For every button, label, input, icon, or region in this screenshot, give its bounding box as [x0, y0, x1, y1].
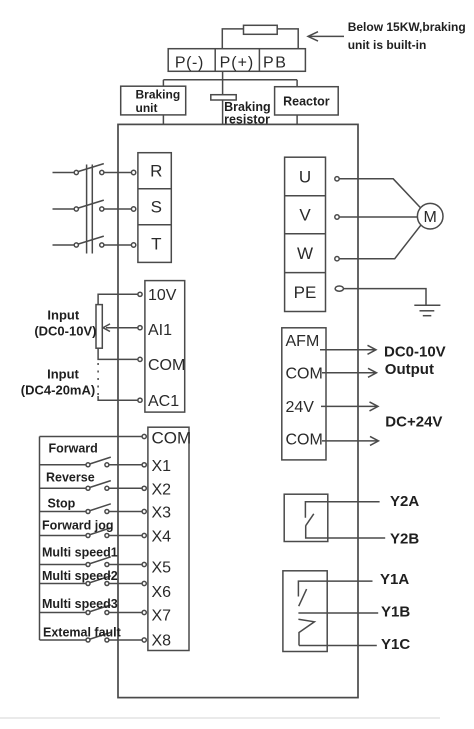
dotted wire to AC1 — [97, 363, 99, 396]
wire: X1 row with switch — [40, 464, 87, 466]
switch blade T — [78, 236, 104, 244]
terminal circles COM X1-X8 — [142, 434, 146, 642]
svg-text:COM: COM — [286, 431, 323, 448]
wire: S phase input — [53, 208, 75, 210]
svg-text:(DC0-10V): (DC0-10V) — [34, 324, 96, 339]
terminal circle W — [335, 257, 339, 261]
svg-text:Input: Input — [47, 367, 79, 382]
relay Y2 contact — [305, 502, 379, 518]
terminal circle 10V — [138, 292, 142, 296]
svg-text:W: W — [297, 244, 313, 263]
svg-text:24V: 24V — [286, 399, 315, 416]
wire: reactor to main block — [296, 115, 298, 124]
braking unit box — [121, 86, 186, 115]
terminal circle AI1 — [138, 326, 142, 330]
svg-text:DC0-10V: DC0-10V — [384, 343, 446, 360]
resistor: braking resistor symbol — [211, 95, 236, 100]
ground symbol — [414, 304, 440, 306]
switch circles X1-X8 — [86, 463, 109, 642]
switch blade S — [78, 200, 104, 208]
svg-text:Stop: Stop — [48, 496, 76, 510]
svg-text:X8: X8 — [152, 633, 172, 650]
svg-text:P(+): P(+) — [220, 54, 255, 71]
svg-text:Output: Output — [385, 361, 434, 378]
svg-text:Reactor: Reactor — [283, 95, 330, 109]
wire: bus to reactor — [296, 80, 298, 87]
wire: U to motor — [339, 179, 421, 209]
svg-text:PB: PB — [263, 54, 287, 71]
analog terminal box 10V AI1 COM AC1 — [145, 281, 185, 413]
relay Y1 box — [283, 571, 327, 652]
svg-text:COM: COM — [286, 366, 323, 383]
faint scan line at bottom — [0, 717, 440, 719]
svg-text:PE: PE — [294, 283, 317, 302]
wire: COM row — [40, 436, 143, 438]
digital terminal box COM X1-X8 — [148, 427, 189, 650]
wire: AI1 wiper — [106, 327, 138, 329]
svg-text:unit is built-in: unit is built-in — [348, 38, 427, 52]
terminal block P(-) P(+) PB — [168, 49, 305, 72]
svg-text:M: M — [424, 209, 437, 226]
svg-text:X6: X6 — [152, 584, 172, 601]
svg-text:Y2B: Y2B — [390, 531, 419, 548]
svg-text:X2: X2 — [152, 481, 172, 498]
svg-text:unit: unit — [136, 101, 158, 115]
terminal circle PE — [335, 286, 343, 291]
breaker linkage lines — [86, 165, 88, 254]
terminal strip U V W PE — [285, 157, 326, 311]
svg-text:X7: X7 — [152, 608, 172, 625]
wire: T phase input — [53, 244, 75, 246]
svg-text:10V: 10V — [148, 287, 177, 304]
svg-text:X3: X3 — [152, 505, 172, 522]
svg-text:Y1C: Y1C — [381, 636, 410, 653]
wire: bus below terminal block — [163, 79, 297, 81]
wire: bus through braking resistor to main block — [222, 80, 224, 125]
svg-text:P(-): P(-) — [175, 54, 204, 71]
wire: drop from terminal block to bus — [222, 71, 224, 80]
svg-text:DC+24V: DC+24V — [385, 414, 442, 431]
svg-text:Forward jog: Forward jog — [42, 519, 114, 533]
svg-text:(DC4-20mA): (DC4-20mA) — [21, 383, 95, 398]
wire: bus to braking unit — [162, 80, 164, 86]
wire: COM2 output arrow — [322, 440, 377, 442]
wire: PE to ground — [344, 289, 427, 306]
relay Y1 blade — [299, 589, 307, 606]
motor M circle — [417, 203, 443, 229]
reactor box — [275, 87, 339, 115]
relay Y2 box — [284, 494, 328, 541]
potentiometer body — [96, 305, 102, 349]
svg-text:Below 15KW,braking: Below 15KW,braking — [348, 20, 466, 34]
terminal circle V — [335, 215, 339, 219]
svg-text:COM: COM — [152, 429, 192, 448]
svg-text:AI1: AI1 — [148, 322, 172, 339]
svg-text:Multi speed1: Multi speed1 — [42, 545, 118, 559]
wire: AFM output arrow — [320, 349, 375, 351]
wire: X5 row with switch — [40, 564, 87, 566]
wire: braking unit to main block — [162, 115, 164, 125]
switch blade R — [78, 164, 104, 172]
svg-text:Reverse: Reverse — [46, 471, 95, 485]
svg-text:Y1A: Y1A — [380, 571, 409, 588]
svg-text:Input: Input — [47, 308, 79, 323]
relay Y1 Y1B lead — [298, 612, 378, 614]
svg-text:Multi speed2: Multi speed2 — [42, 569, 118, 583]
wire: X7 row with switch — [40, 612, 87, 614]
wire: X4 row with switch — [40, 535, 87, 537]
svg-text:resistor: resistor — [224, 113, 270, 127]
svg-text:Extemal fault: Extemal fault — [43, 625, 122, 639]
svg-text:V: V — [299, 206, 311, 225]
wire: 24V output arrow — [321, 405, 377, 407]
wire: W to motor — [339, 224, 421, 258]
svg-text:AC1: AC1 — [148, 393, 179, 410]
svg-text:Braking: Braking — [136, 88, 181, 102]
svg-text:T: T — [151, 235, 161, 254]
svg-text:Y2A: Y2A — [390, 493, 419, 510]
wiper arrowhead — [103, 324, 110, 332]
wire: COM output arrow — [322, 372, 375, 374]
relay Y1 NC contact — [298, 619, 314, 645]
terminal circle COM — [138, 357, 142, 361]
terminal circle AC1 — [138, 398, 142, 402]
wire: X6 row with switch — [40, 583, 87, 585]
wire: X3 row with switch — [40, 511, 87, 513]
wire: COM to potentiometer bottom — [98, 348, 138, 359]
wire: R phase input — [53, 172, 75, 174]
terminal strip R S T — [138, 153, 171, 263]
wire: X2 row with switch — [40, 487, 87, 489]
svg-text:X1: X1 — [152, 458, 172, 475]
terminal circle U — [335, 177, 339, 181]
relay Y1 contact: Y1A lead — [298, 581, 372, 596]
terminal circles R row — [74, 170, 78, 174]
arrow pointing to braking resistor note — [309, 35, 344, 37]
svg-text:Multi speed3: Multi speed3 — [42, 597, 118, 611]
wire: bracket from P(+) over to PB via external braking resistor — [222, 29, 298, 49]
wire: V to motor — [339, 216, 417, 218]
svg-text:X5: X5 — [152, 560, 172, 577]
svg-text:R: R — [150, 162, 162, 181]
svg-text:Y1B: Y1B — [381, 604, 410, 621]
wire: 10V to potentiometer — [98, 294, 138, 304]
terminal circles S row — [74, 207, 78, 211]
main inverter block outline — [118, 124, 358, 697]
relay Y1 Y1C lead — [299, 645, 377, 647]
svg-text:S: S — [151, 198, 162, 217]
terminal circles T row — [74, 243, 78, 247]
wire: X8 row with switch — [40, 639, 87, 641]
wire: AC1 — [98, 396, 138, 400]
svg-text:COM: COM — [148, 357, 185, 374]
svg-text:X4: X4 — [152, 529, 172, 546]
svg-text:Forward: Forward — [49, 442, 98, 456]
svg-text:U: U — [299, 168, 311, 187]
svg-text:AFM: AFM — [286, 333, 320, 350]
digital input bus — [39, 437, 41, 641]
resistor: external braking resistor — [244, 25, 278, 34]
AFM COM 24V COM box — [282, 328, 326, 460]
